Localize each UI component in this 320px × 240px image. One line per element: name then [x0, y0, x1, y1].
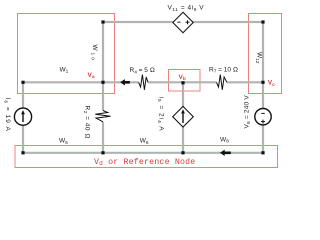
svg-text:Vd or Reference Node: Vd or Reference Node [94, 157, 195, 167]
